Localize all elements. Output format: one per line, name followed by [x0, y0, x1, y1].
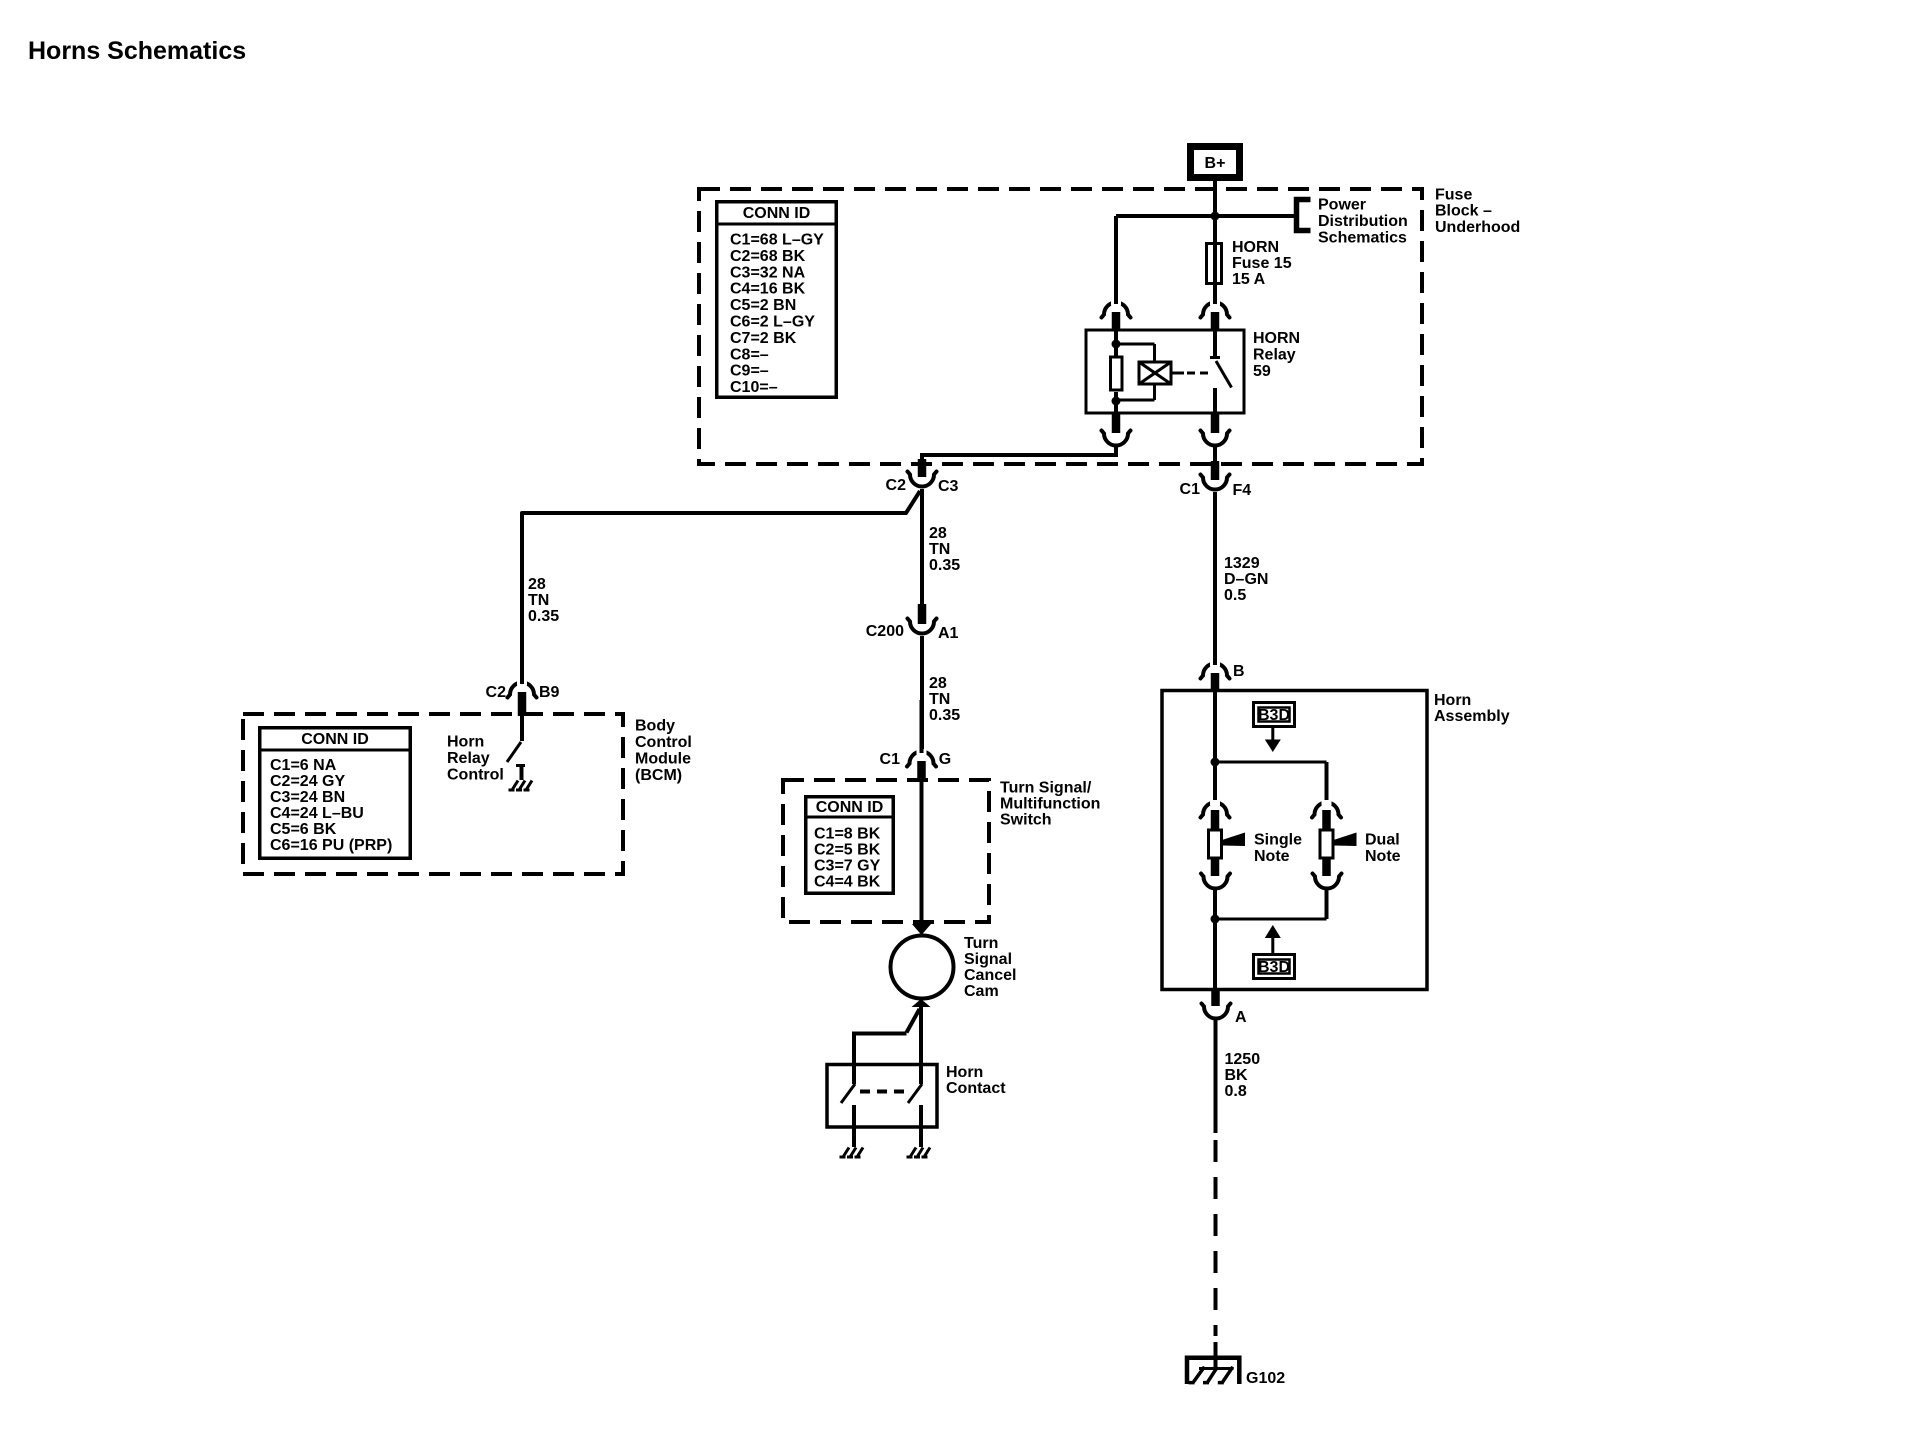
svg-text:D–GN: D–GN — [1224, 571, 1268, 588]
svg-text:A1: A1 — [938, 625, 959, 642]
svg-text:BK: BK — [1225, 1067, 1249, 1084]
label: HORN Relay 59 — [1253, 330, 1300, 380]
junction at top branch — [1211, 758, 1220, 767]
svg-text:CONN ID: CONN ID — [301, 731, 369, 748]
svg-text:(BCM): (BCM) — [635, 767, 682, 784]
svg-text:Block –: Block – — [1435, 203, 1492, 220]
wire: right fixed contact to ground — [919, 1105, 923, 1147]
svg-text:Control: Control — [635, 734, 692, 751]
svg-text:C2: C2 — [486, 684, 507, 701]
arrow into cancel cam — [912, 924, 931, 935]
conn id table (fuse block) — [716, 202, 837, 398]
relay switch contact — [1210, 331, 1232, 413]
svg-text:B9: B9 — [539, 684, 560, 701]
svg-text:1329: 1329 — [1224, 555, 1260, 572]
connector A (below horn assembly) — [1202, 988, 1248, 1026]
svg-text:CONN ID: CONN ID — [816, 799, 884, 816]
svg-text:C1=8 BK: C1=8 BK — [814, 826, 881, 843]
svg-text:C7=2 BK: C7=2 BK — [730, 330, 797, 347]
fuse block underhood (dashed box) — [699, 189, 1422, 464]
connector cup (single note horn) — [1201, 858, 1230, 889]
svg-text:C6=2 L–GY: C6=2 L–GY — [730, 314, 815, 331]
svg-text:0.35: 0.35 — [929, 707, 960, 724]
body control module BCM (dashed box) — [243, 714, 623, 874]
svg-text:C5=2 BN: C5=2 BN — [730, 297, 796, 314]
svg-text:0.35: 0.35 — [929, 557, 960, 574]
svg-text:C3=32 NA: C3=32 NA — [730, 264, 806, 281]
svg-text:C3: C3 — [938, 478, 959, 495]
svg-text:Power: Power — [1318, 197, 1366, 214]
wire: assembly ground lead — [1213, 919, 1217, 990]
wire: cancel cam to right horn contact — [919, 1006, 923, 1084]
wire: B pin into assembly — [1213, 690, 1217, 762]
svg-text:59: 59 — [1253, 363, 1271, 380]
svg-text:Control: Control — [447, 767, 504, 784]
wire: down to dual note horn — [1325, 762, 1329, 804]
svg-text:G: G — [939, 751, 951, 768]
svg-text:0.5: 0.5 — [1224, 587, 1246, 604]
svg-text:Horns Schematics: Horns Schematics — [28, 37, 246, 65]
svg-text:C1: C1 — [1180, 481, 1201, 498]
svg-text:TN: TN — [929, 541, 950, 558]
svg-text:Contact: Contact — [946, 1080, 1006, 1097]
connector cup below relay coil pin — [1102, 413, 1131, 446]
connector cup (dual note horn) — [1313, 858, 1342, 889]
svg-text:15 A: 15 A — [1232, 271, 1266, 288]
svg-text:C200: C200 — [866, 623, 904, 640]
single note horn trumpet — [1222, 833, 1245, 847]
conn id table (turn signal switch) — [805, 797, 893, 894]
horn contact right switch blade — [908, 1084, 922, 1103]
svg-text:C3=7 GY: C3=7 GY — [814, 857, 881, 874]
arrow from horn contact to cancel cam — [912, 999, 931, 1007]
label: Horn Contact — [946, 1064, 1006, 1097]
fuse HORN Fuse 15 (15 A) — [1207, 244, 1222, 284]
connector dome C2/B9 (BCM) — [486, 630, 560, 716]
ground (horn contact right) — [907, 1148, 931, 1158]
svg-text:C4=4 BK: C4=4 BK — [814, 873, 881, 890]
svg-text:C10=–: C10=– — [730, 379, 778, 396]
wire label 28 TN 0.35 (upper) — [929, 525, 960, 574]
svg-text:Single: Single — [1254, 832, 1302, 849]
wire: branch down to relay coil — [1114, 216, 1118, 304]
svg-text:C8=–: C8=– — [730, 346, 769, 363]
wire label 28 TN 0.35 (BCM run) — [528, 576, 559, 625]
svg-text:C4=16 BK: C4=16 BK — [730, 281, 806, 298]
svg-text:B+: B+ — [1205, 155, 1226, 172]
svg-text:Turn: Turn — [964, 935, 998, 952]
horn contact box — [827, 1065, 937, 1128]
svg-text:28: 28 — [929, 675, 947, 692]
wire: bottom branch — [1215, 918, 1327, 921]
svg-text:C4=24 L–BU: C4=24 L–BU — [270, 805, 364, 822]
label: Turn Signal/Multifunction Switch — [1000, 780, 1100, 829]
junction at relay coil bottom — [1112, 397, 1121, 406]
svg-text:CONN ID: CONN ID — [743, 205, 811, 222]
turn signal / multifunction switch (dashed box) — [783, 780, 989, 922]
wire: top branch to dual note — [1215, 761, 1327, 764]
wire: dual note return — [1325, 888, 1329, 919]
junction at bottom branch — [1211, 915, 1220, 924]
wire: ground lead — [1214, 1018, 1218, 1133]
ground G102 — [1187, 1342, 1285, 1387]
dual note horn body — [1320, 830, 1333, 858]
svg-text:C2: C2 — [886, 477, 907, 494]
resistor (relay suppression) — [1111, 357, 1123, 390]
label: Body Control Module (BCM) — [635, 718, 692, 785]
svg-text:A: A — [1235, 1009, 1247, 1026]
label: Single Note — [1254, 832, 1302, 866]
wire: C200 to turn signal switch — [920, 636, 924, 752]
single note horn body — [1209, 830, 1222, 858]
splice B3D (bottom) — [1254, 925, 1295, 979]
wire label 1250 BK 0.8 — [1225, 1051, 1261, 1100]
svg-text:1250: 1250 — [1225, 1051, 1261, 1068]
connector C1/F4 (in-line, below fuse block) — [1180, 461, 1252, 499]
connector dome (single note horn) — [1201, 800, 1230, 830]
svg-text:C5=6 BK: C5=6 BK — [270, 821, 337, 838]
junction at B+ feed — [1211, 212, 1220, 221]
horn assembly box — [1162, 691, 1427, 990]
svg-text:B3D: B3D — [1258, 707, 1290, 724]
svg-text:0.35: 0.35 — [528, 608, 559, 625]
junction at relay coil top — [1112, 340, 1121, 349]
svg-text:Assembly: Assembly — [1434, 708, 1510, 725]
connector dome C1/G (turn signal switch) — [880, 700, 952, 780]
wire: ground lead (dashed continuation) — [1214, 1140, 1218, 1336]
svg-text:HORN: HORN — [1232, 239, 1279, 256]
svg-text:C9=–: C9=– — [730, 363, 769, 380]
connector cup below relay switch pin — [1201, 413, 1230, 446]
svg-text:C1=68 L–GY: C1=68 L–GY — [730, 232, 824, 249]
svg-text:Fuse: Fuse — [1435, 187, 1472, 204]
relay coil (box with X) — [1139, 362, 1171, 384]
svg-text:0.8: 0.8 — [1225, 1083, 1247, 1100]
connector dome at relay coil pin — [1102, 245, 1131, 331]
bracket to Power Distribution Schematics — [1297, 200, 1311, 231]
svg-text:Horn: Horn — [1434, 692, 1471, 709]
wire: cancel cam sliding contact diagonal — [907, 1009, 920, 1033]
svg-text:Multifunction: Multifunction — [1000, 796, 1100, 813]
svg-text:B: B — [1233, 663, 1245, 680]
conn id table (BCM) — [259, 728, 410, 859]
wire: single note return — [1213, 888, 1217, 919]
dual note horn trumpet — [1334, 833, 1357, 847]
wire: relay output to horn (inside fuse block) — [1213, 445, 1217, 463]
label: Horn Relay Control — [447, 734, 504, 784]
svg-text:Horn: Horn — [447, 734, 484, 751]
wire label 1329 D-GN 0.5 — [1224, 555, 1268, 604]
wire: down through turn signal switch — [920, 780, 924, 924]
svg-text:Relay: Relay — [1253, 347, 1296, 364]
svg-text:Body: Body — [635, 718, 675, 735]
battery node B+ — [1191, 147, 1240, 178]
svg-text:C1=6 NA: C1=6 NA — [270, 757, 337, 774]
svg-text:B3D: B3D — [1258, 959, 1290, 976]
ground (horn contact left) — [840, 1148, 864, 1158]
wire: horn feed from C1/F4 down to horn assembly — [1213, 492, 1217, 665]
svg-text:Dual: Dual — [1365, 832, 1400, 849]
label: Turn Signal Cancel Cam — [964, 935, 1016, 1000]
wire: B+ down through fuse — [1213, 181, 1217, 304]
svg-text:Cancel: Cancel — [964, 967, 1016, 984]
svg-text:Note: Note — [1365, 848, 1401, 865]
svg-text:C3=24 BN: C3=24 BN — [270, 789, 345, 806]
svg-text:C2=68 BK: C2=68 BK — [730, 248, 806, 265]
splice B3D (top) — [1254, 703, 1295, 753]
horn relay control switch (inside BCM) — [507, 716, 525, 780]
svg-text:C2=24 GY: C2=24 GY — [270, 773, 345, 790]
wire label 28 TN 0.35 (lower) — [929, 675, 960, 724]
wire: left fixed contact to ground — [852, 1105, 856, 1147]
svg-text:Relay: Relay — [447, 750, 490, 767]
relay coil armature link (dashed) — [1171, 372, 1184, 375]
svg-text:TN: TN — [528, 592, 549, 609]
wire: left branch to horn contact — [854, 1034, 907, 1085]
mechanical link (dashed) between blades — [860, 1090, 908, 1094]
svg-text:Cam: Cam — [964, 983, 999, 1000]
wire: relay coil output left and down — [922, 445, 1116, 460]
wire: horn relay control run to BCM — [522, 491, 920, 684]
svg-text:Turn Signal/: Turn Signal/ — [1000, 780, 1092, 797]
wire: B+ feed horizontal to bracket — [1116, 214, 1294, 218]
svg-text:Switch: Switch — [1000, 812, 1052, 829]
svg-text:Module: Module — [635, 751, 691, 768]
svg-text:HORN: HORN — [1253, 330, 1300, 347]
label: Dual Note — [1365, 832, 1401, 866]
svg-text:TN: TN — [929, 691, 950, 708]
svg-text:Note: Note — [1254, 848, 1290, 865]
svg-text:F4: F4 — [1233, 482, 1252, 499]
svg-text:G102: G102 — [1246, 1370, 1285, 1387]
horn contact left switch blade — [841, 1084, 855, 1103]
turn signal cancel cam (circle) — [891, 936, 954, 999]
svg-text:Underhood: Underhood — [1435, 219, 1520, 236]
connector dome (dual note horn) — [1312, 800, 1341, 830]
connector dome B (horn assembly) — [1201, 640, 1245, 692]
svg-text:Horn: Horn — [946, 1064, 983, 1081]
label: Power Distribution Schematics — [1318, 197, 1408, 247]
wire: horn switch feed down from C2/C3 — [920, 489, 924, 606]
svg-text:C6=16 PU (PRP): C6=16 PU (PRP) — [270, 837, 392, 854]
svg-text:28: 28 — [528, 576, 546, 593]
svg-text:C2=5 BK: C2=5 BK — [814, 842, 881, 859]
connector C200/A1 (in-line) — [866, 604, 959, 642]
connector C2/C3 (in-line, below fuse block) — [886, 459, 959, 495]
relay K59 HORN Relay box — [1086, 330, 1244, 413]
svg-text:Distribution: Distribution — [1318, 213, 1408, 230]
connector dome at relay switch pin — [1201, 284, 1230, 331]
svg-text:Schematics: Schematics — [1318, 230, 1407, 247]
label: HORN Fuse 15 15 A — [1232, 239, 1292, 288]
label: Horn Assembly — [1434, 692, 1510, 725]
svg-text:Fuse 15: Fuse 15 — [1232, 255, 1292, 272]
relay coil branch wiring — [1114, 331, 1155, 413]
label: Fuse Block - Underhood — [1435, 187, 1520, 237]
svg-text:Signal: Signal — [964, 951, 1012, 968]
svg-text:C1: C1 — [880, 751, 901, 768]
ground (BCM internal) — [509, 781, 533, 791]
wire: down to single note horn — [1213, 762, 1217, 804]
svg-text:28: 28 — [929, 525, 947, 542]
